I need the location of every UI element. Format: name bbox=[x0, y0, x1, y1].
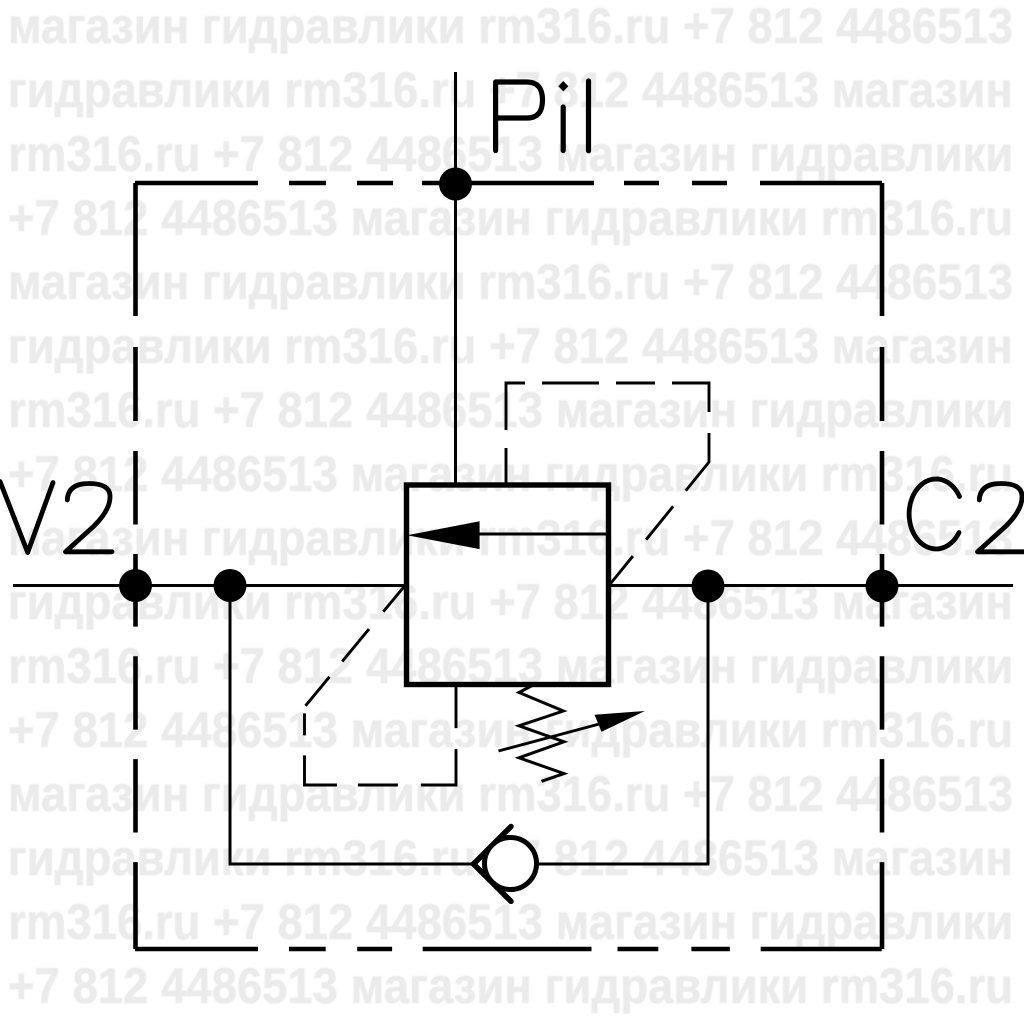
wire: main line V2 side (left of valve square) bbox=[13, 584, 405, 587]
wire: left branch down from main line bbox=[229, 586, 232, 865]
main valve envelope (square) bbox=[407, 485, 609, 685]
junction dot: right branch on main line bbox=[692, 570, 725, 603]
junction dot: Pil at enclosure top bbox=[439, 168, 472, 201]
valve enclosure dashed border: bottom edge bbox=[135, 947, 882, 952]
junction dot: left branch on main line bbox=[214, 569, 247, 602]
adjustment arrow line across spring bbox=[499, 720, 617, 752]
watermark layer (repeated shop text) bbox=[0, 0, 1024, 1]
flow direction arrowhead (solid, pointing left) bbox=[407, 521, 479, 549]
drain line (dashed) from valve left-middle to bottom loop bbox=[305, 586, 457, 786]
pilot line (dashed) from valve top to upper-right bbox=[506, 383, 709, 586]
wire: Pil pilot stub vertical bbox=[454, 72, 457, 484]
wire: main line C2 side (right of valve square) bbox=[609, 584, 1013, 587]
flow path line inside valve bbox=[477, 533, 608, 536]
port label Pil bbox=[496, 81, 589, 151]
check valve ball (circle) bbox=[485, 838, 537, 890]
spring (zigzag) below valve bbox=[519, 685, 564, 782]
port label V2 bbox=[0, 482, 112, 553]
junction dot: C2 at enclosure right bbox=[866, 570, 899, 603]
check valve seat (V) bbox=[474, 827, 512, 902]
valve enclosure dashed border: left edge bbox=[133, 183, 138, 949]
port label C2 bbox=[909, 479, 1024, 552]
wire: right branch down from main line bbox=[707, 586, 710, 864]
junction dot: V2 at enclosure left bbox=[119, 569, 152, 602]
adjustment arrowhead (solid) bbox=[595, 711, 646, 732]
valve enclosure dashed border: top edge bbox=[135, 181, 882, 186]
dot of letter i in Pil (diamond) bbox=[558, 81, 568, 91]
wire: bottom line right segment from check valve bbox=[536, 863, 709, 866]
valve enclosure dashed border: right edge bbox=[880, 183, 885, 949]
wire: bottom line left segment to check valve seat bbox=[229, 863, 476, 866]
